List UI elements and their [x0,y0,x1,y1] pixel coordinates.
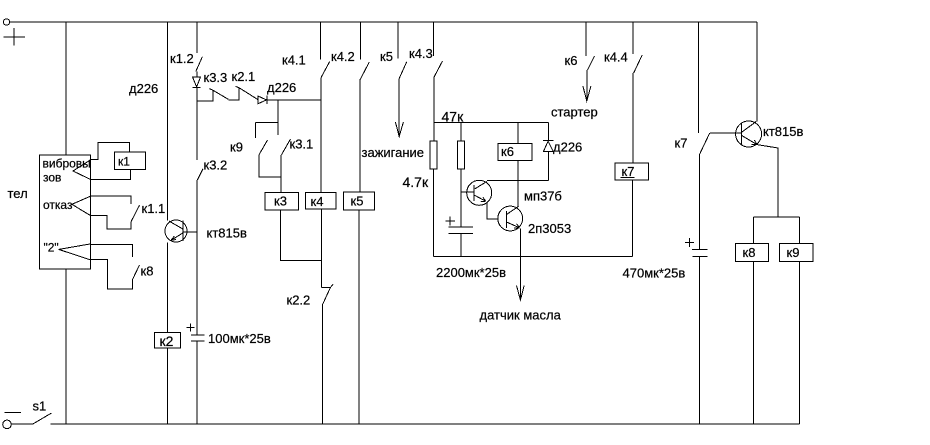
svg-text:к4.2: к4.2 [331,49,355,64]
svg-text:к2.1: к2.1 [232,69,256,84]
svg-text:к4.3: к4.3 [409,46,433,61]
svg-text:к1.2: к1.2 [170,51,194,66]
svg-text:2п3053: 2п3053 [528,221,571,236]
svg-text:к9: к9 [230,140,243,155]
svg-text:s1: s1 [33,399,47,414]
svg-text:к2.2: к2.2 [287,293,311,308]
svg-text:мп37б: мп37б [524,189,562,204]
svg-text:стартер: стартер [551,105,598,120]
svg-text:к1: к1 [118,155,130,169]
svg-text:к7: к7 [675,136,688,151]
svg-text:к7: к7 [622,164,635,179]
svg-text:д226: д226 [267,80,296,95]
svg-text:кт815в: кт815в [763,124,803,139]
svg-text:датчик масла: датчик масла [480,308,562,323]
svg-text:к2: к2 [160,333,174,349]
svg-text:к3.3: к3.3 [204,70,228,85]
svg-text:к4.4: к4.4 [604,50,628,65]
svg-text:к4: к4 [311,194,324,209]
svg-text:к3: к3 [274,194,287,209]
svg-text:100мк*25в: 100мк*25в [208,331,271,346]
svg-text:зов: зов [43,171,61,185]
svg-text:тел: тел [8,186,28,201]
svg-text:к1.1: к1.1 [142,201,166,216]
svg-text:кт815в: кт815в [207,226,247,241]
svg-text:2200мк*25в: 2200мк*25в [436,265,506,280]
svg-text:к8: к8 [743,245,756,260]
svg-text:к6: к6 [565,53,578,68]
svg-text:"2": "2" [44,241,59,255]
svg-text:к8: к8 [141,264,154,279]
svg-text:к5: к5 [351,194,364,209]
svg-text:д226: д226 [129,81,158,96]
svg-text:зажигание: зажигание [362,145,425,160]
svg-text:к3.2: к3.2 [204,158,228,173]
svg-text:47к: 47к [442,109,465,125]
svg-text:470мк*25в: 470мк*25в [623,266,686,281]
svg-text:4.7к: 4.7к [403,174,429,190]
svg-text:к5: к5 [380,49,393,64]
svg-text:к6: к6 [501,144,514,159]
svg-text:к4.1: к4.1 [282,53,306,68]
svg-text:вибровы: вибровы [43,157,91,171]
svg-text:к9: к9 [787,245,800,260]
svg-text:отказ: отказ [43,198,73,212]
svg-text:к3.1: к3.1 [290,137,314,152]
svg-text:д226: д226 [553,140,582,155]
